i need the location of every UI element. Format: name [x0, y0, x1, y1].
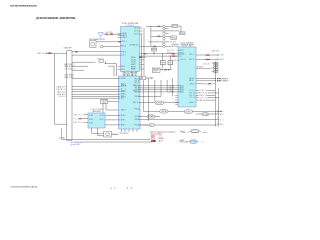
wire mid rail 2 — [140, 55, 179, 57]
wire — [108, 101, 119, 103]
wire long — [142, 80, 144, 111]
svg-text:TU-L 6: TU-L 6 — [169, 89, 174, 91]
wire — [140, 115, 160, 117]
svg-text:MUTE SW: MUTE SW — [172, 46, 180, 48]
wire — [61, 129, 63, 140]
svg-text:P06 37: P06 37 — [135, 109, 140, 111]
svg-text:X101 75kHz: X101 75kHz — [89, 39, 96, 41]
svg-text:INT1 7: INT1 7 — [121, 98, 126, 100]
wire — [72, 65, 88, 67]
transistor Q201 — [163, 25, 165, 27]
svg-text:BU 1: BU 1 — [220, 111, 224, 113]
transistor Q206 — [163, 37, 165, 39]
ferrite bead L105 — [139, 57, 142, 58]
transistor Q202 — [163, 27, 165, 29]
legend note — [150, 130, 175, 142]
svg-text:VCC: VCC — [74, 118, 79, 120]
svg-text:P10 45: P10 45 — [135, 78, 140, 80]
wire — [153, 51, 155, 54]
svg-text:LRCK 37: LRCK 37 — [131, 64, 136, 66]
svg-text:MUTE 13: MUTE 13 — [199, 93, 207, 95]
svg-text:P20 8: P20 8 — [121, 66, 125, 68]
box regulator — [152, 68, 160, 73]
IC2 bottom stubs — [122, 129, 138, 132]
svg-text:S3: S3 — [172, 100, 175, 102]
svg-text:VCC5: VCC5 — [89, 119, 93, 121]
IC2 right pin ticks — [138, 86, 140, 125]
svg-text:■ BUS: ■ BUS — [180, 140, 185, 142]
svg-text:P11 46: P11 46 — [135, 80, 140, 82]
wire IC4 right links — [105, 116, 119, 125]
svg-text:P00 1: P00 1 — [133, 85, 138, 87]
wire channel vertical 2 — [141, 34, 143, 76]
stadium key — [149, 124, 154, 127]
wire mix R out — [196, 58, 217, 60]
svg-text:SERVO: SERVO — [186, 111, 193, 113]
IC1 left pin stubs — [118, 34, 121, 38]
box relay — [179, 32, 185, 35]
wire channel vertical 3 — [150, 26, 152, 46]
pin circle — [217, 59, 218, 60]
pin circle — [217, 54, 218, 55]
svg-text:12 TEST OUT: 12 TEST OUT — [130, 44, 139, 46]
svg-text:X701: X701 — [113, 134, 118, 136]
svg-text:KEY IN 2: KEY IN 2 — [74, 122, 83, 124]
oscillator circle — [100, 45, 103, 48]
svg-text:KEY: KEY — [150, 125, 154, 127]
svg-text:XOUT: XOUT — [100, 115, 105, 117]
box MP201 — [172, 24, 178, 27]
wire — [96, 41, 121, 43]
svg-text:VCC 8.5V: VCC 8.5V — [174, 56, 182, 58]
wire — [140, 96, 161, 98]
IC1 pin ticks — [121, 34, 123, 56]
crystal X101 box — [89, 39, 96, 47]
stadium noise filter — [202, 113, 209, 116]
ferrite bead L503 — [206, 54, 210, 55]
IC1 pin labels inside — [123, 28, 139, 57]
ferrite bead L201 — [157, 26, 160, 27]
ferrite bead L102 — [110, 34, 113, 35]
svg-text:XT1 39: XT1 39 — [131, 59, 136, 61]
svg-text:P08 39: P08 39 — [135, 119, 140, 121]
svg-text:(M30620): (M30620) — [92, 111, 101, 113]
wire — [163, 54, 171, 70]
wire bottom rail 2 — [82, 141, 152, 143]
svg-text:: TUNER: : TUNER — [157, 138, 165, 140]
svg-text:KIN0: KIN0 — [89, 115, 93, 117]
svg-text:XIN 2: XIN 2 — [100, 119, 105, 121]
svg-text:ST BY 1: ST BY 1 — [170, 42, 176, 44]
ferrite bead L504 — [206, 59, 210, 60]
wire — [140, 102, 178, 104]
wire — [112, 133, 119, 135]
wire mid rail 1 — [140, 53, 179, 55]
svg-text:KEY IN 1: KEY IN 1 — [74, 115, 83, 117]
transistor Q203 — [163, 30, 165, 32]
svg-text:FM IN: FM IN — [123, 33, 127, 35]
svg-text:MP201: MP201 — [173, 26, 178, 28]
wire — [160, 69, 170, 71]
IC501 power amp block — [178, 41, 196, 107]
svg-text:CDX-R5715X/R5815X (E) (R): CDX-R5715X/R5815X (E) (R) — [10, 186, 37, 188]
wire mix L out — [196, 54, 217, 56]
pin slashes — [217, 110, 219, 124]
wire — [196, 67, 212, 69]
wire — [103, 104, 119, 114]
svg-text:SVR 22: SVR 22 — [190, 83, 195, 85]
wires to bus — [207, 91, 219, 101]
svg-text:(SYS CONT): (SYS CONT) — [123, 75, 135, 77]
wire — [72, 54, 121, 56]
row3: ferrite bead L202 — [157, 36, 160, 37]
crystal X701 — [104, 131, 112, 137]
stadium servo — [184, 110, 192, 114]
svg-text:GN 4: GN 4 — [220, 124, 224, 126]
junction — [170, 56, 171, 57]
IC3 lower left pin stubs — [175, 96, 178, 105]
svg-text:BCK 36: BCK 36 — [131, 66, 136, 68]
svg-text:IC901 SUB: IC901 SUB — [91, 109, 103, 111]
IC3 top pin stubs — [183, 45, 190, 48]
svg-text:CL 11: CL 11 — [190, 97, 195, 99]
svg-text:P02 33: P02 33 — [135, 87, 140, 89]
junction — [162, 69, 163, 70]
svg-text:CN702 18P: CN702 18P — [64, 48, 72, 50]
ferrite bead L501 — [144, 53, 147, 54]
wire — [103, 46, 120, 48]
IC1 to IC2 links — [124, 72, 136, 77]
svg-text:TU-R 5: TU-R 5 — [169, 92, 174, 94]
wire long 3 with stadium — [140, 124, 217, 126]
wire channel verticals — [149, 78, 173, 121]
svg-text:FR OUT: FR OUT — [189, 78, 194, 80]
wire — [165, 45, 171, 47]
ferrite bead L506 — [172, 56, 175, 57]
svg-text:XRST 5: XRST 5 — [121, 94, 126, 96]
wire — [165, 32, 168, 34]
svg-text:NUMBER: NUMBER — [192, 131, 198, 133]
svg-text:BUS RST: BUS RST — [58, 94, 66, 96]
svg-text:MIX R: MIX R — [181, 59, 186, 61]
svg-text:IN FL 12: IN FL 12 — [167, 50, 174, 52]
wire — [196, 113, 217, 115]
svg-text:IN1 17: IN1 17 — [180, 50, 184, 52]
row2: wire — [151, 30, 163, 32]
box X702 — [100, 100, 107, 104]
svg-text:OUT R: OUT R — [189, 59, 194, 61]
IC2 pin labels inside — [121, 78, 140, 126]
svg-text:42 D2: 42 D2 — [135, 34, 139, 36]
ferrite bead L601 — [164, 69, 167, 70]
wire — [72, 61, 96, 63]
connector CN101 — [67, 51, 72, 141]
wire IC4 left stubs — [82, 115, 88, 123]
wire — [72, 97, 119, 99]
svg-text:GND 9: GND 9 — [190, 102, 195, 104]
wire dot arrow — [146, 77, 153, 79]
svg-text:CD-L 8: CD-L 8 — [169, 85, 174, 87]
wire — [165, 30, 179, 32]
svg-text:KEY2 2: KEY2 2 — [121, 124, 126, 126]
ferrite bead L104 — [75, 51, 78, 52]
junction — [162, 53, 163, 54]
svg-text:MP202: MP202 — [172, 37, 176, 39]
svg-text:P12 47: P12 47 — [135, 82, 140, 84]
svg-text:CLIP 11: CLIP 11 — [199, 97, 207, 99]
svg-text:XTI 4: XTI 4 — [123, 41, 127, 43]
svg-text:BUS CLK: BUS CLK — [58, 91, 66, 93]
svg-text:P21 9: P21 9 — [121, 69, 125, 71]
transistor Q208 — [163, 43, 165, 45]
svg-text:4.5MHz: 4.5MHz — [59, 138, 65, 140]
svg-text:VCO: VCO — [123, 45, 126, 47]
svg-text:FRONT SP: FRONT SP — [222, 78, 229, 80]
filter FL502 — [168, 60, 173, 64]
svg-text:S1: S1 — [172, 95, 175, 97]
wire bus bundle — [72, 86, 119, 88]
wire bottom rail — [62, 138, 151, 140]
transistor Q204 — [163, 32, 165, 34]
svg-text:PCMD 35: PCMD 35 — [131, 68, 136, 70]
svg-text:MU 13: MU 13 — [190, 92, 195, 94]
svg-text:CDX-R5715X/R5815X (E) (R): CDX-R5715X/R5815X (E) (R) — [10, 5, 37, 7]
svg-text:SCLK: SCLK — [121, 90, 125, 92]
IC2 right: box bus driver — [140, 77, 146, 80]
wire — [178, 26, 181, 32]
ferrite bead L505 — [208, 83, 211, 84]
wire left bus — [55, 53, 67, 124]
svg-text:(DSP): (DSP) — [127, 25, 134, 27]
row4: wire — [149, 41, 163, 43]
wire — [165, 41, 169, 43]
wire — [104, 33, 121, 35]
svg-text:BUS 5: BUS 5 — [133, 102, 138, 104]
IC1 right pin stubs — [140, 28, 143, 34]
svg-text:KEY0 9: KEY0 9 — [121, 115, 126, 117]
resistor network — [98, 58, 106, 64]
antenna ANT — [98, 33, 103, 39]
svg-text:SI 4: SI 4 — [121, 89, 126, 91]
wire — [72, 95, 119, 97]
svg-text:RXD 2: RXD 2 — [121, 83, 126, 85]
svg-text:SD 6: SD 6 — [123, 51, 127, 53]
ferrite bead L502 — [172, 53, 175, 54]
svg-text:X702 8M: X702 8M — [101, 100, 107, 102]
wire — [140, 45, 163, 47]
box MP202 — [171, 36, 176, 40]
svg-text:LINE OUT: LINE OUT — [212, 51, 220, 53]
ferrite bead L101 — [48, 52, 51, 54]
wire — [165, 25, 172, 27]
transistor Q205 — [163, 35, 165, 37]
svg-text:REG51: REG51 — [152, 49, 156, 51]
wire — [72, 51, 121, 53]
svg-text:ST 14: ST 14 — [190, 90, 195, 92]
svg-text:P09 40: P09 40 — [135, 125, 140, 127]
junction — [215, 80, 216, 81]
junction — [154, 53, 155, 54]
svg-text:48: 48 — [127, 188, 133, 190]
svg-text:S4: S4 — [172, 102, 175, 104]
svg-text:[4]. BLOCK DIAGRAM – MAIN SECT: [4]. BLOCK DIAGRAM – MAIN SECTION – — [36, 17, 77, 20]
svg-text:KIN1: KIN1 — [89, 123, 93, 125]
svg-text:IC701 CXD9776M: IC701 CXD9776M — [122, 23, 139, 25]
IC3 lower right pins — [196, 91, 199, 101]
IC4 internal labels — [89, 115, 104, 125]
svg-text:L-OUT: L-OUT — [220, 55, 224, 57]
note row: block symbol — [180, 140, 205, 144]
svg-text:P07 38: P07 38 — [135, 116, 140, 118]
svg-text:TEST RST NC: TEST RST NC — [120, 133, 129, 135]
svg-text:47: 47 — [110, 188, 116, 190]
wire — [196, 83, 202, 85]
junction — [215, 78, 216, 79]
transistor Q209 — [163, 45, 165, 47]
svg-text:P40 12: P40 12 — [121, 78, 126, 80]
svg-text:OSC1 8: OSC1 8 — [121, 110, 126, 112]
wire — [72, 88, 119, 90]
svg-text:SENS 6: SENS 6 — [121, 96, 126, 98]
svg-text:S2: S2 — [172, 97, 175, 99]
wire — [165, 28, 168, 30]
svg-text:KEY1 1: KEY1 1 — [121, 119, 126, 121]
svg-text:OUT L: OUT L — [189, 54, 194, 56]
svg-text:GND 3: GND 3 — [123, 37, 127, 39]
IC3 pin labels inside — [180, 50, 195, 104]
row1: wire — [146, 25, 157, 27]
box REG — [152, 48, 157, 51]
IC3 pin ticks left — [178, 50, 180, 102]
note row: connector symbol — [182, 130, 208, 134]
vertical bus right — [214, 61, 216, 126]
svg-text:44 DO: 44 DO — [135, 28, 139, 30]
IC702 system control block — [119, 73, 141, 129]
svg-text:RY201: RY201 — [180, 33, 185, 35]
svg-text:MIX L: MIX L — [181, 54, 186, 56]
svg-text:VDD 40: VDD 40 — [131, 57, 136, 59]
svg-text:IC LSI: IC LSI — [191, 141, 197, 143]
transistor Q207 — [163, 41, 165, 43]
svg-text:5V/8.5V: 5V/8.5V — [153, 71, 158, 73]
svg-text:XT2 38: XT2 38 — [131, 62, 136, 64]
svg-text:: CD: : CD — [157, 136, 163, 138]
svg-text:RR OUT: RR OUT — [189, 80, 194, 82]
IC2 pin ticks — [119, 79, 121, 125]
wire — [160, 25, 162, 27]
svg-text:10k 4.7k: 10k 4.7k — [204, 64, 210, 66]
wire — [72, 91, 119, 93]
svg-text:(page 48): (page 48) — [70, 143, 80, 146]
wire — [72, 93, 119, 95]
svg-text:IN2 16: IN2 16 — [180, 52, 184, 54]
wire front out — [196, 78, 216, 80]
svg-text:DG 12: DG 12 — [190, 95, 195, 97]
IC1 left lower pins — [118, 66, 121, 69]
svg-text:shown as follows.: shown as follows. — [150, 134, 163, 136]
filter FL501 — [161, 60, 166, 64]
stadium optical — [160, 110, 168, 114]
wire mech rail — [143, 110, 222, 112]
svg-text:ANT NOTE1: ANT NOTE1 — [95, 38, 105, 41]
ferrite bead L901 — [79, 118, 82, 119]
capacitor C101 — [106, 33, 108, 35]
wire — [72, 69, 84, 71]
stadium BUS — [155, 101, 164, 104]
junction arrow — [168, 69, 169, 70]
wire — [165, 35, 171, 37]
stadium remote — [147, 115, 155, 118]
IC4 bottom pins to crystal — [92, 128, 104, 135]
wire stubs — [140, 57, 147, 69]
wire — [213, 83, 216, 85]
arrow rear — [217, 80, 219, 82]
svg-text:IN FR 11: IN FR 11 — [167, 53, 174, 55]
svg-text:ST-BY 14: ST-BY 14 — [199, 90, 207, 92]
svg-text:P01 2: P01 2 — [133, 90, 138, 92]
IC701 DSP block — [121, 23, 140, 72]
svg-text:SENS: SENS — [59, 96, 66, 98]
wire legend rail — [140, 124, 149, 126]
wire rear out — [196, 80, 216, 82]
resistor ladder — [212, 61, 219, 73]
IC1 bottom right pin rows — [131, 57, 136, 70]
svg-text:CD-R 7: CD-R 7 — [169, 88, 174, 90]
svg-text:43 D1: 43 D1 — [135, 31, 139, 33]
vertical bus right 2 — [218, 88, 220, 126]
wire bundle IC2-IC3 — [140, 86, 178, 92]
wire — [45, 52, 67, 54]
ferrite bead L103 — [118, 41, 120, 42]
wire channel vertical — [143, 28, 145, 76]
svg-text:SC 7: SC 7 — [123, 55, 127, 57]
svg-text:IL 3: IL 3 — [220, 119, 224, 121]
wire L-route 2 — [108, 66, 114, 76]
wire — [72, 78, 119, 80]
wire — [151, 35, 163, 37]
row5: ferrite bead L203 — [153, 46, 156, 47]
wire L-route — [105, 61, 116, 76]
svg-text:P05 36: P05 36 — [135, 96, 140, 98]
wire long 2 — [140, 119, 217, 121]
IC901 sub CPU block — [88, 109, 105, 128]
svg-text:R-OUT: R-OUT — [220, 59, 224, 61]
arrow front — [217, 78, 219, 80]
svg-text:FILTER: FILTER — [203, 114, 208, 116]
